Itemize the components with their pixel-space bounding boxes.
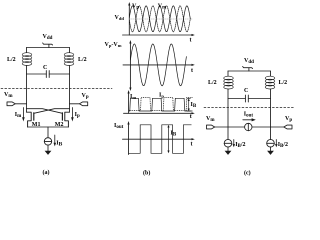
- cross-coupling wire: M2 drain to M1 gate: [34, 109, 70, 114]
- svg-text:IB/2: IB/2: [235, 142, 245, 149]
- wire left branch (panel c): [227, 89, 229, 140]
- capacitor C (panel c): [228, 88, 271, 102]
- wave3 square Ip (dotted): [129, 97, 193, 110]
- svg-text:IB: IB: [171, 131, 177, 138]
- svg-text:t: t: [191, 68, 193, 74]
- inductor L/2 left (panel c): [208, 76, 233, 89]
- svg-text:(c): (c): [244, 170, 251, 177]
- wave4 square Iout: [129, 125, 192, 154]
- current source IB (panel a): [44, 138, 51, 145]
- inductor L/2 right (panel a): [64, 53, 86, 66]
- wave1 x-axis t: [123, 34, 195, 44]
- svg-text:/2: /2: [282, 80, 288, 86]
- wave3 x-axis t: [124, 112, 195, 120]
- svg-text:C: C: [43, 65, 47, 71]
- svg-text:t: t: [191, 142, 193, 148]
- wire left branch top stub (panel a): [26, 48, 28, 53]
- svg-text:IB/2: IB/2: [278, 142, 288, 149]
- wave2 sinusoid: [130, 44, 186, 86]
- wave1 Vdd dashed level: [115, 15, 193, 21]
- wave4 amplitude marker IB: [167, 125, 176, 154]
- wave1 y-axis: [128, 2, 130, 35]
- wire tail (panel a): [47, 127, 49, 138]
- wire left branch (panel a): [26, 66, 28, 113]
- wave4 y-axis: [127, 121, 129, 155]
- supply Vdd (panel a): [43, 34, 53, 48]
- current arrow Iout label (panel c): [243, 111, 256, 121]
- svg-text:Vp-Vm: Vp-Vm: [105, 42, 122, 48]
- current source IB/2 right (panel c): [267, 140, 275, 148]
- dashed boundary line (panel c): [204, 107, 295, 109]
- wire right branch top stub (panel a): [69, 48, 71, 53]
- ground (panel a): [45, 145, 52, 155]
- svg-text:/2: /2: [211, 80, 217, 86]
- supply Vdd (panel c): [243, 58, 255, 71]
- port Vp (panel c): [271, 116, 293, 129]
- wave2 x-axis t: [123, 64, 195, 74]
- transistor M2: [55, 112, 70, 128]
- wave1 sinusoid Vp (solid): [129, 6, 190, 32]
- wire common source rail (panel a): [28, 126, 69, 128]
- inductor L/2 left (panel a): [7, 53, 32, 66]
- svg-text:C: C: [244, 88, 248, 94]
- ground right (panel c): [267, 147, 274, 155]
- current arrow IB/2 right label: [275, 140, 288, 150]
- current arrow IB label (panel a): [54, 135, 63, 148]
- svg-text:Ip: Ip: [159, 93, 164, 99]
- dashed boundary line (panel a): [1, 88, 112, 90]
- wire right branch top stub (panel c): [270, 71, 272, 76]
- wave3 y-axis: [128, 90, 130, 113]
- wire left branch top stub (panel c): [227, 71, 229, 76]
- svg-text:Vp: Vp: [132, 4, 139, 11]
- wire right branch (panel c): [270, 89, 272, 140]
- port Vm (panel c): [206, 116, 228, 129]
- svg-text:(b): (b): [143, 170, 150, 177]
- wire top rail (panel a): [27, 47, 70, 49]
- svg-text:Iout: Iout: [114, 123, 124, 130]
- svg-text:IB: IB: [56, 141, 62, 148]
- current source IB/2 left (panel c): [224, 140, 232, 148]
- svg-text:Vdd: Vdd: [115, 15, 125, 21]
- svg-text:Im: Im: [15, 112, 22, 119]
- current arrow IB/2 left label: [233, 140, 246, 150]
- wave3 amplitude marker IB: [187, 98, 197, 111]
- capacitor C (panel a): [27, 65, 70, 78]
- current arrow Ip (panel a): [71, 108, 80, 122]
- current source Iout (panel c): [245, 123, 252, 130]
- wire middle (panel c): [228, 126, 271, 128]
- wire top rail (panel c): [228, 70, 271, 72]
- wave2 y-axis: [129, 40, 131, 91]
- svg-text:t: t: [190, 114, 192, 120]
- port Vm (panel a): [4, 92, 27, 106]
- wave1 sinusoid Vm (dotted): [129, 6, 190, 32]
- wave3 square Im (solid): [129, 98, 193, 111]
- svg-text:/2: /2: [10, 57, 16, 63]
- inductor L/2 right (panel c): [265, 76, 287, 89]
- svg-text:(a): (a): [43, 169, 50, 176]
- svg-text:IB: IB: [191, 102, 197, 109]
- svg-text:Vm: Vm: [158, 4, 167, 11]
- transistor M1: [27, 112, 41, 128]
- svg-text:Im: Im: [130, 94, 136, 100]
- svg-text:t: t: [190, 38, 192, 44]
- port Vp (panel a): [70, 93, 89, 106]
- ground left (panel c): [225, 147, 232, 155]
- wave4 x-axis t: [123, 138, 195, 147]
- svg-text:Ip: Ip: [75, 112, 80, 119]
- current arrow Im (panel a): [15, 108, 25, 122]
- wire right branch (panel a): [69, 66, 71, 113]
- cross-coupling wire: M1 drain to M2 gate: [27, 109, 63, 114]
- svg-text:/2: /2: [81, 57, 87, 63]
